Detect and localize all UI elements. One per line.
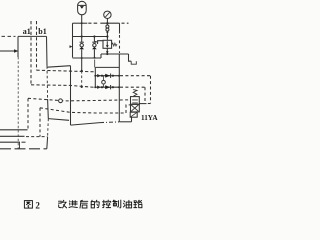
wire: bus step up: [100, 54, 102, 58]
inline orifice circle on pilot line: [59, 99, 63, 103]
wire: bottom run to solenoid: [119, 121, 131, 123]
wire: accumulator column below dashed: [81, 71, 83, 87]
wire: right vertical dashed: [119, 35, 121, 53]
wire: step vertical leaning (solid top): [46, 36, 49, 66]
solid stub valve right port: [139, 103, 146, 105]
pilot line b1: dashed vertical: [36, 21, 38, 70]
junction relief outlet / rail: [106, 53, 108, 55]
wire: top line dashes beyond corner: [122, 22, 129, 24]
relief valve vent hook: [98, 41, 103, 44]
wire: bus left segment: [73, 57, 102, 59]
tank symbol: [131, 61, 136, 64]
wire: tee branch to x70.5: [47, 66, 70, 68]
pilot line a1: dashed horizontal to check row 2: [31, 85, 95, 88]
pilot dashed line lower: [40, 108, 126, 113]
junction row1/left vertical: [94, 75, 96, 77]
char 油: [123, 200, 131, 208]
valve spring top: [133, 90, 137, 97]
wire: left inlet arrow line: [0, 50, 14, 52]
system line 3: [0, 141, 20, 143]
gauge damper orifice (two balls): [106, 23, 109, 40]
junction row2/left vertical: [94, 86, 96, 88]
pilot hook up to valve bottom-left port: [126, 105, 131, 113]
junction gauge/top line: [106, 22, 108, 24]
dashed drop from pilot1 corner: [27, 99, 29, 130]
wire: rail end step down: [129, 54, 132, 61]
svg-text:b1: b1: [38, 27, 46, 36]
dashed return line D1 elbow: [148, 103, 151, 105]
dashed drop x40: [39, 108, 41, 137]
check row 2: inline check valve: [101, 85, 114, 89]
system line 2 dashed continuation: [26, 136, 48, 138]
accumulator: [78, 1, 87, 15]
relief valve body: [95, 40, 117, 48]
check row 2: arrowhead: [97, 86, 101, 89]
system line 1: [0, 129, 28, 131]
junction below orifice: [106, 31, 108, 33]
dashed return line D1 right: [150, 76, 152, 104]
wire: bottom run solid: [71, 123, 101, 126]
wire: gauge stem: [106, 19, 108, 24]
wire: bottom run dash-dot: [100, 121, 119, 124]
junction a1 pilot / column: [81, 86, 83, 88]
bottom position crossed arrows: [131, 105, 138, 111]
wire: step vertical lower solid: [47, 99, 50, 119]
relief valve spring: [112, 43, 117, 46]
wire: row1 dashed continuation to outer box: [120, 75, 151, 77]
step vertical lower dashed part: [47, 119, 50, 137]
wire: top-left solid rail under a1 b1: [18, 35, 47, 37]
char 图: [24, 201, 32, 209]
manifold bracket top line: [95, 66, 119, 68]
junction row1/right column: [118, 75, 120, 77]
system line 3 dash: [22, 141, 26, 143]
check valve A (accumulator branch): [79, 23, 84, 58]
junction mid/check B column: [93, 35, 95, 37]
wire: left trunk vertical solid part: [17, 36, 19, 57]
wire: stub line lower-left: [48, 119, 69, 121]
junction check B / bus: [94, 57, 96, 59]
trunk foot: [19, 143, 21, 149]
pilot dashed line to valve top-left port: [28, 98, 131, 101]
check row 2: line: [95, 86, 119, 88]
junction on relief inlet: [106, 35, 108, 37]
wire: long vertical x70.5: [70, 66, 72, 125]
caption: 图 2 改进后的控制油路 (drawn as strokes): [24, 200, 142, 210]
pressure gauge: [104, 11, 111, 18]
junction check A / bus: [81, 57, 83, 59]
top position blocked ports: [132, 100, 138, 103]
wire: right vertical solid from corner: [119, 23, 121, 33]
dashed return line D2 right: [144, 87, 146, 101]
wire: accumulator stem: [81, 15, 83, 24]
arrow mark on left vertical: [70, 45, 73, 48]
char 改: [59, 200, 67, 208]
wire: up into solenoid: [131, 117, 133, 122]
junction row2/right column: [118, 86, 120, 88]
wire: top line right solid to corner: [100, 22, 119, 24]
solenoid valve 11YA body: [130, 90, 139, 118]
wire: right column below rail: [118, 54, 120, 122]
check row 1: arrowhead: [97, 74, 101, 77]
svg-text:2: 2: [35, 200, 40, 210]
wire: left trunk vertical dashed part: [17, 57, 19, 149]
char 进: [69, 201, 77, 208]
wire: step vertical dashed middle: [46, 66, 49, 99]
solenoid box: [130, 112, 137, 117]
system line 2: [0, 135, 25, 137]
shuttle ball between rows: [102, 76, 106, 88]
wire: top-left dashed lead-in: [2, 35, 16, 37]
char 控: [102, 200, 110, 208]
svg-text:11YA: 11YA: [141, 114, 158, 122]
char 的: [91, 200, 99, 208]
svg-text:a1: a1: [23, 27, 31, 36]
char 路: [134, 200, 142, 208]
manifold bracket left vertical: [94, 67, 96, 87]
check row 1: line: [95, 75, 119, 77]
wire: top box left vertical: [72, 23, 74, 57]
wire: rail right segment: [101, 53, 129, 55]
arrowhead into trunk: [14, 49, 18, 52]
check valve B: [92, 37, 97, 58]
system line 4 long-dash: [0, 148, 47, 150]
wire: row2 dashed continuation: [120, 86, 145, 88]
wire: top line dash break: [88, 22, 97, 24]
junction b1 pilot / column: [81, 70, 83, 72]
wire: mid manifold line y36.5: [73, 36, 108, 38]
wire: accumulator column below bus solid: [81, 58, 83, 71]
pilot line a1: dashed vertical: [30, 21, 32, 85]
relief vent dash: [95, 40, 97, 42]
wire: top line solid: [73, 22, 88, 24]
wire: check B column to bracket: [94, 60, 96, 68]
wire: relief outlet with arrow: [106, 48, 108, 52]
pilot line b1: dashed horizontal to check row 1: [37, 70, 96, 72]
char 制: [113, 200, 121, 208]
junction mid/accumulator column: [81, 35, 83, 37]
junction accumulator/top line: [81, 22, 83, 24]
step vertical foot solid: [46, 137, 49, 149]
char 后: [80, 200, 88, 208]
check row 1: inline check valve: [101, 74, 114, 78]
